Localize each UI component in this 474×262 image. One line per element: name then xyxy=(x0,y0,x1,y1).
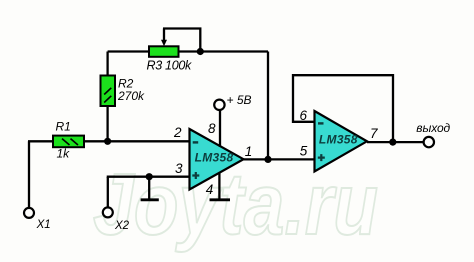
svg-text:1: 1 xyxy=(245,144,253,159)
svg-text:7: 7 xyxy=(370,126,378,141)
wire pin8 stem xyxy=(219,110,221,147)
junction node D xyxy=(146,173,153,180)
svg-text:8: 8 xyxy=(208,121,216,136)
wire pin4 stem xyxy=(218,173,220,200)
op-amp U1B LM358 xyxy=(315,111,368,172)
junction node B xyxy=(197,48,204,55)
wire pin3 xyxy=(107,176,190,178)
svg-text:выход: выход xyxy=(416,121,450,135)
U1B minus xyxy=(318,122,324,124)
wire U1A output to pin5 xyxy=(244,158,315,160)
svg-text:1k: 1k xyxy=(57,146,71,160)
U1A plus xyxy=(192,172,199,179)
U1A minus xyxy=(193,141,199,143)
svg-text:+ 5В: + 5В xyxy=(227,93,252,107)
wire wiper loop xyxy=(163,29,200,52)
R3 wiper arrow xyxy=(161,29,167,47)
wire top to R3 xyxy=(108,50,149,52)
potentiometer R3 xyxy=(149,46,179,57)
svg-text:R1: R1 xyxy=(56,120,71,134)
ground G2 xyxy=(210,198,231,201)
resistor R2 xyxy=(101,76,116,107)
wire X1 to R1 xyxy=(28,140,54,142)
wire R2 top riser xyxy=(106,52,108,77)
wire R2 bottom riser xyxy=(106,106,108,141)
wire R1 to pin2 xyxy=(84,140,190,142)
wire X1 riser xyxy=(28,141,30,208)
svg-text:2: 2 xyxy=(173,125,182,140)
wire U1B output xyxy=(367,141,424,143)
svg-text:4: 4 xyxy=(206,182,214,197)
U1B plus xyxy=(318,154,325,161)
svg-text:LM358: LM358 xyxy=(319,133,358,147)
terminal output xyxy=(424,137,434,147)
terminal +5V xyxy=(214,100,224,110)
svg-text:5: 5 xyxy=(300,143,308,158)
wire R3 right xyxy=(179,50,269,52)
svg-text:X2: X2 xyxy=(114,220,130,232)
op-amp U1A LM358 xyxy=(190,129,244,190)
junction node E xyxy=(389,139,396,146)
wire U1B feedback xyxy=(293,75,393,142)
junction node A xyxy=(104,138,111,145)
resistor R1 xyxy=(53,136,84,148)
wire feedback drop xyxy=(267,52,269,160)
ground G1 stem xyxy=(148,177,150,200)
svg-text:270k: 270k xyxy=(117,89,145,103)
terminal X1 xyxy=(24,208,34,218)
ground G1 xyxy=(141,198,159,201)
wire X2 riser xyxy=(107,177,109,208)
svg-text:R3 100k: R3 100k xyxy=(147,58,193,72)
svg-text:LM358: LM358 xyxy=(195,151,234,165)
junction node C xyxy=(264,156,271,163)
svg-text:3: 3 xyxy=(175,161,183,176)
terminal X2 xyxy=(103,207,113,217)
svg-text:Joyta.ru: Joyta.ru xyxy=(93,156,378,253)
svg-text:X1: X1 xyxy=(36,219,51,231)
